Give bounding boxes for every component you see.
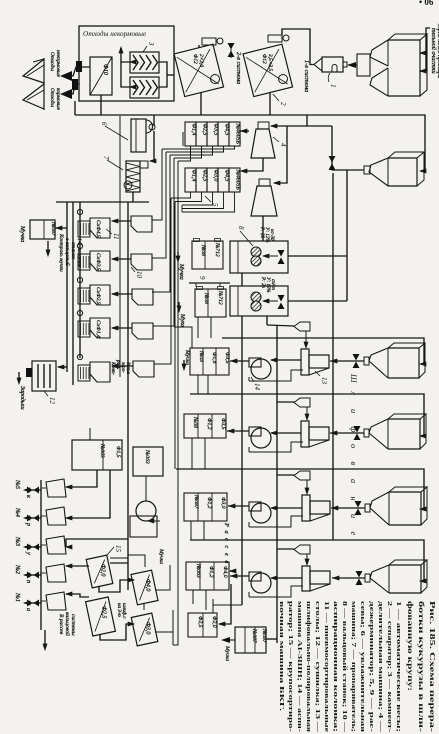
- svg-text:севы; 6 — увлажнительная: севы; 6 — увлажнительная: [359, 601, 366, 733]
- wire machine 6 down to machine 7: [150, 131, 154, 161]
- wire chute3: [112, 293, 132, 295]
- svg-text:в: в: [349, 462, 358, 466]
- svg-text:Ф2,5: Ф2,5: [101, 606, 107, 618]
- aspirator 14 no.2: [249, 427, 261, 436]
- roller mill 8 upper box: [230, 241, 288, 273]
- chute №1: [46, 592, 66, 610]
- valve on bin B line: [329, 156, 336, 163]
- svg-text:11 — пневмосортировальные: 11 — пневмосортировальные: [323, 601, 330, 732]
- funnel row1: [294, 322, 310, 331]
- wire bin A manifold to machine 1: [348, 64, 357, 66]
- svg-text:№4605Б: №4605Б: [235, 169, 242, 191]
- roller mill 8 lower box: [230, 286, 288, 316]
- groats sorter 15 P1 Ф2,0: [86, 555, 113, 588]
- svg-text:Ф4,0: Ф4,0: [222, 566, 228, 578]
- svg-text:сп/сп: сп/сп: [270, 279, 275, 290]
- svg-text:ботки кукурузы в шли-: ботки кукурузы в шли-: [417, 601, 426, 733]
- waste spout upper: [23, 59, 44, 83]
- wire stack2 fan-out: [171, 192, 191, 198]
- svg-text:и: и: [349, 514, 358, 518]
- svg-text:4: 4: [279, 143, 287, 147]
- groats sorter 15 P3 Ф4,0: [131, 570, 158, 605]
- outlet №1: [25, 602, 41, 604]
- svg-text:Отходы некормовые: Отходы некормовые: [83, 30, 147, 38]
- svg-text:Мучка: Мучка: [158, 548, 164, 564]
- svg-text:Ф4,0: Ф4,0: [145, 579, 152, 591]
- waste wire lower with valve: [71, 84, 79, 94]
- chute №3: [46, 536, 66, 554]
- svg-text:№087: №087: [251, 628, 257, 643]
- svg-text:Ф1,6: Ф1,6: [211, 352, 217, 364]
- svg-text:№063: №063: [195, 563, 201, 578]
- storage bin A (receiving, double hopper): [388, 40, 420, 96]
- wire S1 legs to loop D: [197, 375, 199, 394]
- wire stack2 line to loop E: [174, 202, 176, 470]
- svg-text:Ф1,2: Ф1,2: [206, 497, 212, 509]
- wire bundle verticals to chutes: [152, 149, 162, 220]
- svg-text:л: л: [349, 391, 358, 396]
- aspiration column 10 no.4: [132, 323, 153, 339]
- svg-text:дежерминатор; 5, 9 — рас-: дежерминатор; 5, 9 — рас-: [368, 601, 375, 732]
- svg-text:Мучка: Мучка: [224, 645, 230, 661]
- wire mill2 feed: [288, 300, 347, 302]
- wire leg into Ф2,0 top: [212, 599, 214, 613]
- svg-text:6: 6: [100, 122, 108, 126]
- storage bin F: [389, 565, 421, 593]
- svg-text:столы; 12 — сушилка; 13 —: столы; 12 — сушилка; 13 —: [314, 601, 321, 733]
- aspiration column 10 no.3: [132, 289, 153, 305]
- cyclone with box: [145, 476, 147, 501]
- sieve box B2 (№063/Ф1,2/Ф4,0): [186, 562, 229, 590]
- dryer 12: [32, 361, 56, 391]
- storage bin D: [388, 419, 420, 449]
- chute №5: [46, 479, 66, 497]
- wire bin D to machine 13 row2: [330, 432, 364, 434]
- svg-text:Рис. 185. Схема перера-: Рис. 185. Схема перера-: [428, 601, 437, 733]
- svg-text:№1: №1: [14, 592, 21, 602]
- sieve box 9 lower: [195, 289, 226, 317]
- machine 1 automatic scales: [322, 57, 343, 72]
- svg-text:е: е: [223, 553, 230, 556]
- pneumo table 11 no.4: [78, 321, 90, 337]
- degerminator 4 lower: [251, 186, 277, 216]
- svg-text:№08: №08: [192, 416, 198, 428]
- svg-text:ф: ф: [349, 427, 358, 433]
- wire machine 3 right connections: [159, 62, 167, 87]
- svg-text:зоро-: зоро-: [120, 361, 125, 373]
- sieve box 9 upper (№08/№712): [192, 241, 223, 269]
- aspirator 14 no.1: [249, 358, 261, 367]
- wire loop D: [190, 394, 424, 436]
- wire loop feed bin B: [290, 115, 425, 171]
- svg-text:шлиф.с: шлиф.с: [121, 603, 126, 619]
- svg-text:№2: №2: [14, 564, 21, 574]
- svg-text:3,5×3,5: 3,5×3,5: [267, 53, 273, 71]
- machine 7 bottom circle: [124, 181, 132, 189]
- polishing machine 13 row1: [301, 349, 309, 375]
- svg-text:1: 1: [329, 84, 337, 88]
- svg-text:а: а: [349, 479, 358, 483]
- aspirator 14 no.3: [249, 502, 261, 511]
- wire funnel row1 feed: [267, 325, 294, 326]
- svg-text:1-я система: 1-я система: [303, 60, 310, 92]
- svg-text:делительная машина; 4 —: делительная машина; 4 —: [377, 601, 384, 733]
- svg-text:СхФ2,5: СхФ2,5: [95, 287, 101, 305]
- svg-text:Р: Р: [223, 522, 230, 527]
- wire loop C: [222, 338, 424, 364]
- label Мучка S1: [182, 364, 186, 370]
- wire bus2 down with valve: [332, 126, 364, 170]
- wire funnel row2 feed: [277, 401, 294, 403]
- svg-text:Ф10: Ф10: [102, 64, 108, 75]
- degerminator 4 upper: [251, 129, 275, 158]
- box №063 second: [133, 447, 163, 476]
- aspiration column 10 no.1: [131, 216, 152, 232]
- svg-text:№712: №712: [217, 290, 223, 305]
- wire loop E: [176, 469, 424, 509]
- enclosure 'Отходы некормовые': [79, 26, 174, 101]
- label Мучка upper: [176, 256, 180, 262]
- wire machine13 row1 lower discharge: [249, 370, 303, 381]
- svg-text:Мука: Мука: [179, 313, 185, 327]
- wire pneumo vertical A: [66, 202, 68, 372]
- wire fan-out stack1 to bundle: [178, 146, 191, 161]
- chute №4: [46, 507, 66, 525]
- bin A outlet manifold: [357, 54, 370, 76]
- svg-text:12: 12: [48, 397, 56, 405]
- svg-text:Отходы: Отходы: [49, 52, 56, 71]
- wire dryer feed: [58, 366, 67, 368]
- groats sorter 15 P2 Ф2,5: [86, 597, 116, 636]
- svg-text:шлифовально-полировальная: шлифовально-полировальная: [305, 601, 312, 733]
- svg-text:У: 12%: У: 12%: [264, 227, 269, 243]
- wire bin B branch down x347: [346, 170, 348, 255]
- outlet №5: [25, 489, 41, 491]
- wire fan1 to sieve S1: [230, 360, 249, 362]
- label Мучка bottom right: [224, 639, 235, 641]
- svg-text:Ш: Ш: [349, 373, 358, 383]
- box №063/Ф1,5: [72, 440, 122, 470]
- svg-text:и: и: [349, 409, 358, 413]
- svg-text:№5: №5: [14, 479, 21, 489]
- wire machine 3 internal: [121, 48, 130, 62]
- arrow into bin A lower: [420, 69, 426, 73]
- svg-text:СхФ1,4: СхФ1,4: [95, 320, 101, 338]
- funnel row2: [294, 398, 310, 407]
- wire pneumo vertical mid: [72, 202, 74, 385]
- wire machine 1 to separators: [290, 29, 314, 65]
- wire stack2 line to chute5: [154, 198, 171, 364]
- pneumo table 11 no.2: [78, 254, 90, 270]
- svg-text:к: к: [25, 495, 32, 498]
- svg-text:№3: №3: [14, 536, 21, 546]
- bin B outlet box: [364, 166, 370, 174]
- svg-text:Мучка: Мучка: [19, 225, 25, 242]
- sieve box B1 (№087/Ф1,2/Ф3,0): [184, 493, 227, 521]
- aspiration column 10 no.5: [133, 361, 154, 377]
- wire y283 over box2: [189, 282, 230, 284]
- svg-text:Ф1,2: Ф1,2: [208, 566, 214, 578]
- wire box to bus: [55, 227, 67, 229]
- svg-text:Р: 2в: Р: 2в: [260, 276, 265, 289]
- svg-text:Отходы: Отходы: [49, 88, 56, 107]
- svg-text:№087: №087: [193, 494, 199, 509]
- svg-text:дыша: дыша: [125, 362, 130, 374]
- sieve stack 5 lower: [185, 168, 196, 192]
- wire machine13 row2 to fan2: [271, 432, 301, 434]
- hatched machine 3 upper: [130, 52, 159, 73]
- wire fan2 to sieve S2: [227, 430, 249, 432]
- svg-text:3: 3: [147, 41, 155, 46]
- outlet №4: [25, 517, 41, 519]
- svg-text:1-й системы: 1-й системы: [76, 238, 83, 268]
- wire separator1 down to bus: [200, 92, 202, 115]
- svg-text:№09: №09: [198, 350, 204, 362]
- sieve stack 5 upper: [185, 122, 196, 146]
- wire enclosure to bus: [74, 101, 76, 115]
- machine 6 conditioner: [131, 119, 146, 152]
- wire into Ф2,0: [219, 584, 231, 624]
- svg-text:Ф2,0: Ф2,0: [100, 564, 106, 576]
- svg-text:Ф3,0: Ф3,0: [220, 497, 226, 509]
- svg-text:№087: №087: [261, 628, 267, 643]
- svg-text:№08: №08: [200, 244, 206, 256]
- wire №087 box feed: [266, 638, 277, 640]
- svg-text:ратор; 15 — крупосортиро-: ратор; 15 — крупосортиро-: [287, 601, 294, 732]
- svg-text:• 06: • 06: [419, 0, 434, 7]
- svg-text:Р: 20: Р: 20: [259, 226, 264, 239]
- wire from boxes to chutes: [66, 470, 97, 487]
- arrow Мучка down: [46, 250, 50, 256]
- svg-text:СхФ3,5: СхФ3,5: [95, 253, 101, 271]
- wire funnel row4 feed: [277, 548, 294, 550]
- wire chute5: [112, 365, 133, 367]
- svg-text:Ф4,5: Ф4,5: [224, 170, 231, 182]
- wire to separator 2 feeder: [282, 29, 290, 35]
- sieve box S1 (№09/Ф1,6/Ф3,5): [190, 348, 229, 375]
- wire box2 legs to loop C: [197, 317, 199, 338]
- label Зародыш: [17, 378, 21, 384]
- svg-text:с: с: [223, 546, 230, 549]
- svg-text:13: 13: [320, 377, 328, 385]
- svg-text:№08: №08: [203, 292, 209, 304]
- aspirator 14 no.4: [249, 572, 261, 581]
- svg-text:№712: №712: [214, 242, 220, 257]
- svg-text:е: е: [349, 532, 358, 536]
- wire machine13 row3 lower discharge: [249, 516, 303, 527]
- waste bin wall: [43, 58, 45, 110]
- svg-text:7: 7: [102, 156, 110, 160]
- box №087/№087: [235, 627, 266, 653]
- wire bin F to machine 13 row4: [332, 577, 365, 579]
- wire loop F: [190, 540, 424, 581]
- svg-text:а: а: [25, 608, 32, 611]
- svg-text:Ф1,4: Ф1,4: [191, 124, 198, 136]
- svg-text:Ф1,2: Ф1,2: [206, 418, 212, 430]
- pneumo table 11 no.3: [78, 288, 90, 304]
- wire machine13 row2 lower discharge: [249, 442, 303, 452]
- funnel row4: [294, 545, 310, 554]
- funnel row3: [294, 471, 310, 480]
- svg-text:Ф2,5: Ф2,5: [197, 616, 203, 628]
- wire pneumo vertical B with circles: [79, 202, 81, 358]
- separator 2 first feeder: [202, 38, 216, 45]
- wire main horizontal bus y115: [75, 114, 290, 116]
- storage bin E: [389, 492, 421, 525]
- wires bkg interconnect: [110, 562, 128, 564]
- box №087 control: [30, 220, 55, 239]
- svg-text:Мучка: Мучка: [178, 263, 184, 280]
- machine 7 top box: [140, 161, 148, 168]
- wire bundle deep line to BKG: [173, 161, 178, 645]
- sieve box S2 (№08/Ф1,2/Ф3,5): [184, 414, 226, 438]
- svg-text:станок: станок: [70, 242, 76, 259]
- polishing machine 13 row3: [302, 495, 310, 521]
- polishing machine 13 row4: [302, 566, 310, 591]
- wire B1 legs to loop F: [190, 521, 192, 540]
- svg-text:15: 15: [114, 545, 122, 553]
- svg-text:14: 14: [253, 383, 261, 391]
- waste spout lower: [23, 84, 44, 109]
- svg-text:2×2,0: 2×2,0: [198, 54, 204, 67]
- separator 2 second: [243, 44, 292, 96]
- wire machine13 row4 lower discharge: [249, 586, 303, 597]
- wire separator2 down to bus: [269, 92, 271, 115]
- svg-text:№4: №4: [14, 507, 21, 517]
- outlet №2: [25, 574, 41, 576]
- svg-text:Ф1,4: Ф1,4: [191, 170, 198, 182]
- svg-text:вочная машина БКГ.: вочная машина БКГ.: [278, 601, 285, 712]
- storage bin B: [388, 158, 417, 186]
- svg-text:2 — сепаратор; 3 — камнеот-: 2 — сепаратор; 3 — камнеот-: [386, 601, 393, 732]
- wire bkg to chute no.2: [66, 565, 89, 567]
- wire fan3 to sieve B1: [228, 505, 249, 507]
- valve between separators: [228, 43, 235, 50]
- svg-text:Мучка: Мучка: [184, 349, 190, 365]
- wire bin C to machine 13: [330, 360, 364, 362]
- svg-text:№4605Б: №4605Б: [235, 123, 242, 145]
- separator 2 second feeder: [268, 35, 282, 42]
- svg-text:Ф3,5: Ф3,5: [220, 418, 226, 430]
- wire T2 feed from y126: [274, 126, 287, 183]
- svg-text:Ф2,0: Ф2,0: [211, 616, 217, 628]
- svg-text:вальцовой: вальцовой: [64, 612, 71, 636]
- svg-text:Конт-: Конт-: [110, 361, 115, 375]
- wire S2 legs to loop E: [191, 438, 193, 469]
- svg-text:10: 10: [135, 271, 143, 279]
- svg-text:Ф3,0: Ф3,0: [145, 622, 151, 634]
- aspiration column 10 no.2: [131, 254, 152, 270]
- svg-text:п: п: [25, 580, 32, 583]
- arrow В рассев down: [43, 644, 47, 650]
- svg-text:№063: №063: [99, 443, 105, 458]
- svg-text:В рассев: В рассев: [58, 614, 64, 635]
- wire machine13 row1 to fan: [271, 359, 301, 361]
- wire machine13 row3 to fan3: [271, 507, 302, 509]
- pneumo table 11 no.1: [78, 221, 90, 237]
- svg-text:машина АI-ЗШН; 14 — аспи-: машина АI-ЗШН; 14 — аспи-: [296, 601, 303, 732]
- svg-text:фованную крупу:: фованную крупу:: [406, 601, 415, 691]
- polishing machine 13 row2: [301, 421, 309, 447]
- wire pneumo top bus y202: [56, 201, 149, 203]
- svg-text:2-я система: 2-я система: [235, 52, 242, 84]
- svg-text:некормовые: некормовые: [55, 50, 61, 78]
- wire bus to T1 via y126: [271, 115, 307, 126]
- wire machine 7 down long: [132, 192, 134, 202]
- svg-text:8 — вальцовый станок; 10 —: 8 — вальцовый станок; 10 —: [341, 601, 348, 733]
- svg-text:машина; 7 — пропариватель;: машина; 7 — пропариватель;: [350, 601, 357, 732]
- wire extra vertical x120: [119, 116, 121, 377]
- sieve box Ф2,5/Ф2,0: [188, 613, 217, 637]
- wire y539 to chute3: [66, 539, 128, 547]
- svg-text:8: 8: [237, 226, 245, 230]
- wire p1 feed from line x128: [110, 557, 128, 559]
- chute №2: [46, 564, 66, 582]
- sifter Ф10: [90, 57, 112, 95]
- wire T2 bottom down: [262, 216, 264, 241]
- svg-text:Ф4,5: Ф4,5: [224, 124, 231, 136]
- wire long vertical x277: [276, 325, 278, 643]
- wire funnel row3 feed: [277, 474, 294, 476]
- svg-text:на 3-ю: на 3-ю: [116, 603, 121, 617]
- machine 7 steamer: [126, 161, 140, 192]
- svg-text:р: р: [25, 522, 32, 526]
- svg-text:системы: системы: [70, 614, 76, 636]
- svg-text:Ф12: Ф12: [261, 54, 267, 64]
- svg-text:н: н: [349, 497, 358, 501]
- separator 2 first: [174, 44, 223, 96]
- wire machine13 row4 to fan4: [271, 577, 302, 579]
- hatched machine 3 lower: [130, 77, 159, 98]
- wire long vertical x333: [332, 173, 334, 540]
- wire bus to machine 6: [153, 115, 155, 126]
- waste wire upper with valve: [71, 67, 90, 76]
- outlet №3: [25, 546, 41, 548]
- svg-text:аспирационная колонка;: аспирационная колонка;: [332, 601, 339, 732]
- pneumo table 11 no.5: [78, 365, 90, 381]
- wire chute1: [112, 220, 131, 222]
- wire mill outputs: [241, 273, 243, 286]
- wire fan4 to sieve B2: [230, 575, 249, 577]
- groats sorter 15 P4 Ф3,0: [131, 613, 158, 646]
- svg-text:№063: №063: [144, 449, 150, 464]
- svg-text:кормовые: кормовые: [55, 88, 61, 111]
- svg-text:1 — автоматические весы;: 1 — автоматические весы;: [395, 601, 402, 732]
- svg-text:у: у: [25, 551, 32, 555]
- svg-text:СхФ4,5: СхФ4,5: [95, 220, 101, 238]
- wire feed from right edge to bin A: [420, 28, 430, 53]
- svg-text:тельной очистки: тельной очистки: [430, 28, 437, 74]
- svg-text:Ф12: Ф12: [192, 54, 198, 64]
- wire T1 discharge to stack2: [241, 158, 263, 171]
- wire mill1 feed: [288, 255, 347, 257]
- wire B2 legs down: [192, 590, 194, 604]
- svg-text:ос-30: ос-30: [269, 229, 274, 241]
- svg-text:Контроль мучки: Контроль мучки: [58, 233, 64, 272]
- wire chute4: [112, 327, 132, 329]
- wire T1 to stack1: [240, 130, 249, 132]
- svg-text:о: о: [349, 444, 358, 448]
- wire bundle to S1 top: [174, 327, 192, 348]
- svg-text:2: 2: [279, 102, 287, 106]
- wire chute2: [112, 258, 131, 260]
- arrow into bin A upper: [420, 51, 426, 55]
- svg-text:11: 11: [112, 233, 120, 239]
- svg-text:а: а: [223, 531, 230, 534]
- wire bkg to chute no.1: [66, 594, 89, 597]
- outlet bus: [40, 480, 42, 630]
- label Мука lower: [177, 306, 181, 312]
